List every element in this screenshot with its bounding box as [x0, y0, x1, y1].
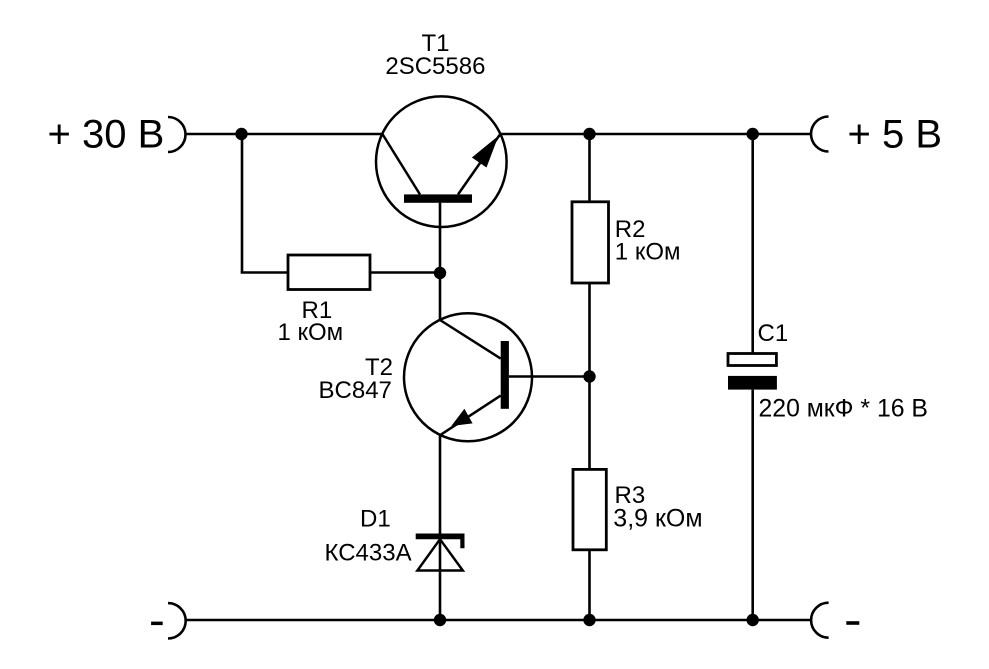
wire T2 emitter down through D1 to rail [439, 435, 442, 620]
capacitor C1 [728, 354, 777, 390]
wire R2 bottom to R3 [588, 283, 591, 469]
svg-text:C1: C1 [758, 320, 789, 347]
wire top rail right [500, 133, 811, 136]
svg-text:2SC5586: 2SC5586 [385, 53, 485, 80]
label minus right [846, 621, 859, 625]
wire node to T2 collector [439, 273, 442, 320]
svg-text:BC847: BC847 [319, 377, 392, 404]
wire C1 top [751, 134, 754, 354]
transistor T1 [376, 96, 507, 227]
svg-text:220 мкФ * 16 В: 220 мкФ * 16 В [759, 396, 928, 423]
wire C1 to rail [751, 390, 754, 620]
node junction rail D1 [434, 614, 446, 626]
wire R2 top [588, 134, 591, 202]
svg-text:D1: D1 [360, 506, 391, 533]
svg-text:1 кОм: 1 кОм [615, 238, 681, 265]
terminal arc input + [168, 117, 186, 152]
node junction top R2 [583, 128, 595, 140]
wire R1 branch vertical [241, 134, 244, 273]
wire bottom rail [186, 619, 811, 622]
wire R1 right [370, 271, 440, 274]
terminal arc output + [811, 117, 828, 152]
node junction divider [583, 370, 595, 382]
svg-text:КС433А: КС433А [325, 540, 412, 567]
resistor R1 [288, 255, 370, 290]
resistor R3 [573, 469, 606, 549]
terminal arc ground right [811, 603, 829, 638]
svg-text:+ 5 В: + 5 В [848, 112, 943, 156]
wire R1 left [241, 271, 288, 274]
diode D1 [416, 534, 465, 571]
node junction rail C1 [747, 614, 759, 626]
svg-text:+ 30 В: + 30 В [48, 112, 165, 156]
wire top rail left [186, 133, 383, 136]
node junction top-left [235, 128, 247, 140]
label minus left [151, 622, 163, 626]
wire R3 to rail [588, 550, 591, 620]
node junction R1/T1/T2 [434, 267, 446, 279]
terminal arc ground left [168, 603, 186, 638]
svg-text:1 кОм: 1 кОм [278, 319, 344, 346]
svg-text:3,9 кОм: 3,9 кОм [613, 505, 702, 533]
wire T2 base to node [509, 375, 590, 378]
resistor R2 [572, 202, 609, 283]
wire T1 base down [439, 203, 442, 273]
node junction top C1 [747, 128, 759, 140]
node junction rail R3 [583, 614, 595, 626]
transistor T2 [404, 313, 532, 441]
